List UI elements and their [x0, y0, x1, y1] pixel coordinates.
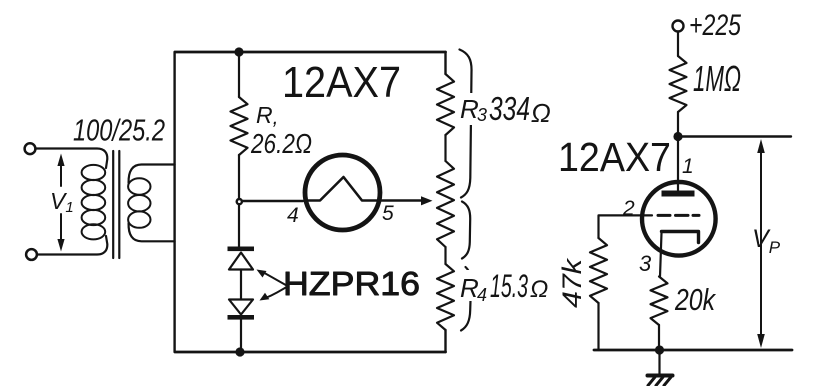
- wire: [444, 247, 446, 264]
- transformer secondary coil: [128, 178, 150, 228]
- svg-text:4: 4: [477, 285, 487, 305]
- tube V2 12AX7 envelope: [642, 182, 716, 256]
- lamp filament: [305, 177, 380, 201]
- svg-text:47k: 47k: [557, 257, 587, 308]
- resistor R3: [437, 74, 454, 135]
- svg-text:20k: 20k: [674, 282, 716, 317]
- wire lamp to wiper: [380, 199, 421, 201]
- label R3 334 ohm: [458, 93, 552, 125]
- svg-text:3: 3: [477, 105, 487, 125]
- wire: [444, 135, 446, 161]
- wire ground stub: [658, 350, 660, 375]
- svg-text:12AX7: 12AX7: [282, 58, 401, 107]
- wire: [238, 205, 240, 247]
- wire bottom rail right: [594, 349, 792, 352]
- wire right rail top: [444, 52, 446, 74]
- terminal +225: [673, 21, 684, 32]
- ground: [648, 374, 673, 378]
- terminal J2 (bottom input): [26, 249, 37, 260]
- wire: [240, 320, 242, 352]
- cathode: [662, 232, 699, 243]
- wire cathode lead: [660, 233, 662, 277]
- svg-text:26.2Ω: 26.2Ω: [250, 128, 312, 159]
- svg-text:R,: R,: [256, 102, 278, 129]
- wire secondary bottom: [129, 223, 175, 241]
- wire: [597, 303, 599, 350]
- node junction top of R1: [234, 47, 243, 56]
- svg-text:2: 2: [622, 197, 635, 220]
- brace R3: [460, 50, 472, 198]
- node 4 (open terminal): [237, 199, 242, 204]
- lamp B1 (ballast tube): [305, 155, 380, 230]
- svg-text:12AX7: 12AX7: [558, 134, 671, 180]
- brace mid: [462, 202, 470, 259]
- diode D1 HZPR16: [228, 247, 255, 252]
- annotation arrow to D1: [264, 273, 288, 287]
- svg-text:Ω: Ω: [531, 98, 551, 128]
- wire left rail: [173, 52, 175, 352]
- svg-text:100/25.2: 100/25.2: [73, 113, 165, 148]
- resistor 47k: [590, 238, 607, 303]
- wire grid lead to 47k: [599, 215, 653, 238]
- svg-text:15.3: 15.3: [490, 268, 528, 304]
- resistor 1M: [670, 56, 687, 112]
- svg-text:5: 5: [382, 202, 394, 225]
- svg-text:3: 3: [639, 251, 652, 276]
- node junction bottom of diodes: [235, 347, 244, 356]
- svg-text:HZPR16: HZPR16: [283, 265, 420, 302]
- svg-text:VP: VP: [752, 225, 781, 257]
- wire: [37, 236, 107, 255]
- wire: [238, 155, 240, 199]
- wire: [238, 52, 240, 97]
- resistor mid (pot section): [437, 161, 454, 247]
- svg-text:1MΩ: 1MΩ: [693, 58, 741, 99]
- annotation arrow to D2: [266, 287, 288, 298]
- svg-text:R: R: [460, 94, 479, 124]
- svg-text:1: 1: [682, 155, 694, 178]
- anode plate: [662, 191, 695, 197]
- svg-text:4: 4: [287, 204, 299, 227]
- transformer primary coil: [82, 165, 106, 240]
- terminal J1 (top input): [25, 143, 36, 154]
- resistor 20k: [651, 277, 668, 326]
- label R4 15.3 ohm: [458, 270, 552, 301]
- grid (dashed): [658, 214, 699, 217]
- wire node 4 to lamp: [243, 200, 304, 202]
- resistor R4: [437, 264, 454, 330]
- wire: [677, 112, 679, 137]
- wire top rail right: [678, 135, 791, 137]
- wire secondary top: [129, 165, 175, 184]
- svg-text:+225: +225: [689, 9, 741, 42]
- wire: [677, 32, 679, 57]
- V1 measurement arrow: [60, 160, 62, 246]
- wire: [36, 149, 108, 169]
- wire: [658, 325, 660, 350]
- svg-text:V1: V1: [50, 188, 74, 216]
- transformer core: [112, 151, 114, 258]
- node junction ground: [655, 345, 664, 354]
- diode D2 HZPR16: [229, 300, 253, 315]
- resistor R1: [231, 97, 248, 155]
- brace R4: [461, 267, 471, 331]
- wire: [444, 330, 446, 352]
- svg-text:R: R: [460, 273, 479, 303]
- svg-text:334: 334: [489, 90, 530, 127]
- wire top rail: [175, 51, 446, 54]
- wire: [240, 270, 242, 300]
- node junction plate: [673, 132, 682, 141]
- wire anode lead: [677, 137, 679, 192]
- svg-text:Ω: Ω: [530, 276, 548, 303]
- wiper arrow: [421, 196, 433, 205]
- VP measurement arrow: [760, 150, 762, 337]
- wire bottom rail: [175, 351, 446, 354]
